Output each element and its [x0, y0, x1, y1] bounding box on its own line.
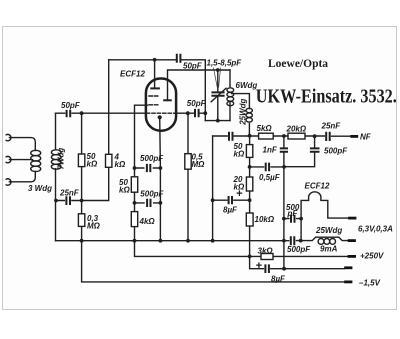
svg-text:pF: pF: [287, 209, 299, 218]
svg-text:500pF: 500pF: [287, 245, 311, 254]
svg-text:500pF: 500pF: [324, 146, 348, 155]
svg-text:UKW-Einsatz. 3532.: UKW-Einsatz. 3532.: [256, 85, 397, 107]
svg-text:8µF: 8µF: [271, 275, 286, 284]
svg-text:+: +: [236, 188, 243, 200]
svg-text:9mA: 9mA: [320, 245, 338, 254]
svg-text:1nF: 1nF: [263, 146, 278, 155]
svg-text:MΩ: MΩ: [87, 222, 101, 231]
svg-text:50pF: 50pF: [61, 101, 81, 110]
svg-text:1,5-8,5pF: 1,5-8,5pF: [207, 59, 243, 68]
svg-text:500pF: 500pF: [140, 189, 164, 198]
svg-text:kΩ: kΩ: [115, 160, 126, 169]
svg-text:3kΩ: 3kΩ: [258, 246, 274, 255]
svg-text:4kΩ: 4kΩ: [139, 217, 156, 226]
svg-text:+: +: [256, 260, 263, 272]
svg-text:+250V: +250V: [360, 252, 384, 261]
svg-text:25nF: 25nF: [59, 189, 80, 198]
svg-text:Loewe/Opta: Loewe/Opta: [268, 58, 328, 70]
svg-text:kΩ: kΩ: [119, 186, 130, 195]
svg-text:ECF12: ECF12: [120, 70, 145, 79]
svg-text:6,3V,0,3A: 6,3V,0,3A: [358, 225, 393, 234]
svg-text:25Wdg: 25Wdg: [315, 226, 342, 235]
svg-text:3 Wdg: 3 Wdg: [28, 184, 52, 193]
svg-text:500pF: 500pF: [140, 154, 164, 163]
svg-text:kΩ: kΩ: [87, 160, 98, 169]
svg-text:ECF12: ECF12: [305, 182, 330, 191]
svg-text:20kΩ: 20kΩ: [286, 125, 307, 134]
svg-text:5kΩ: 5kΩ: [257, 124, 273, 133]
svg-text:25Wdg: 25Wdg: [239, 98, 248, 125]
svg-text:8µF: 8µF: [223, 206, 238, 215]
svg-text:NF: NF: [360, 133, 372, 142]
svg-text:0,5µF: 0,5µF: [259, 173, 281, 182]
svg-text:50pF: 50pF: [187, 99, 207, 108]
svg-text:6Wdg: 6Wdg: [236, 81, 258, 90]
svg-text:10kΩ: 10kΩ: [255, 215, 275, 224]
svg-text:MΩ: MΩ: [192, 160, 206, 169]
svg-text:50pF: 50pF: [183, 62, 203, 71]
svg-text:25nF: 25nF: [321, 122, 342, 131]
svg-text:7Wdg: 7Wdg: [57, 148, 66, 170]
svg-text:kΩ: kΩ: [234, 150, 245, 159]
svg-text:–1,5V: –1,5V: [359, 279, 381, 288]
